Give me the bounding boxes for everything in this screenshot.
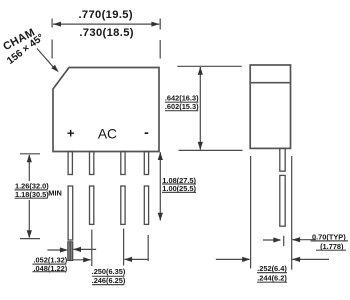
dim 0.70 right arrow bbox=[292, 237, 316, 242]
chamfer label 156x45 bbox=[5, 32, 46, 67]
dim .250/.246 left arrow bbox=[73, 257, 91, 262]
svg-text:1.00(25.5): 1.00(25.5) bbox=[162, 184, 196, 193]
dim text 0.70(TYP) bbox=[311, 232, 349, 241]
pin 1 lower segment bbox=[68, 186, 73, 240]
dim text .246(6.25) bbox=[92, 276, 126, 285]
side view pin lower segment bbox=[280, 175, 285, 226]
pitch extension line pin2 bbox=[91, 230, 93, 267]
dim text .642(16.3) bbox=[165, 94, 199, 103]
dim text 1.08(27.5) bbox=[162, 176, 197, 185]
svg-text:.770(19.5): .770(19.5) bbox=[78, 9, 133, 21]
svg-text:.246(6.25): .246(6.25) bbox=[92, 276, 126, 285]
dim text .252(6.4) bbox=[257, 264, 287, 273]
svg-text:.602(15.3): .602(15.3) bbox=[165, 102, 199, 111]
pitch extension line pin3 bbox=[123, 229, 125, 266]
dim 1.26/1.18 MIN dimension line bbox=[27, 154, 32, 238]
front view body bbox=[53, 68, 159, 152]
dim text 1.00(25.5) bbox=[162, 184, 197, 193]
marking - bbox=[144, 124, 149, 140]
dim text .730(18.5) bbox=[79, 27, 134, 39]
svg-text:.252(6.4): .252(6.4) bbox=[257, 264, 287, 273]
side left extension line bbox=[250, 156, 252, 268]
side view body bbox=[250, 65, 290, 148]
dim text .048(1.22) bbox=[32, 264, 67, 273]
dim text .770(19.5) bbox=[78, 9, 133, 21]
pin 1 upper stub bbox=[68, 152, 72, 175]
side view pin upper stub bbox=[280, 148, 285, 171]
dim .052/.048 left arrow bbox=[47, 247, 68, 252]
dim .250/.246 right arrow bbox=[124, 257, 148, 262]
dim text (1.778) bbox=[316, 242, 346, 251]
dim text .052(1.32) bbox=[32, 256, 67, 265]
side right extension line bbox=[291, 156, 293, 270]
svg-text:-: - bbox=[144, 124, 149, 140]
pin 4 lower segment bbox=[144, 186, 148, 224]
pin 2 upper stub bbox=[90, 152, 94, 175]
dim 0.70 pin face tick bbox=[283, 236, 285, 246]
pitch extension line pin4 bbox=[147, 235, 149, 261]
pin 1 hatched end bbox=[68, 242, 73, 261]
bottom extension line between views bbox=[179, 149, 243, 151]
pin 3 lower segment bbox=[121, 186, 125, 224]
dim 1.08/1.00 dimension line bbox=[158, 152, 163, 221]
dim text .244(6.2) bbox=[257, 273, 287, 282]
chamfer leader arrow bbox=[37, 49, 59, 73]
svg-text:+: + bbox=[67, 126, 75, 141]
side view divider line bbox=[250, 82, 290, 84]
svg-text:.250(6.35): .250(6.35) bbox=[92, 267, 126, 276]
dim text .602(15.3) bbox=[165, 102, 199, 111]
dim text 1.26(32.0) bbox=[15, 181, 50, 190]
dim 1.26/1.18 MIN top bar bbox=[20, 153, 40, 155]
dim .770/.730 right extension line bbox=[159, 19, 161, 59]
dim .642/.602 dimension line bbox=[198, 67, 203, 150]
pin 4 upper stub bbox=[144, 152, 148, 175]
svg-text:.244(6.2): .244(6.2) bbox=[257, 273, 287, 282]
svg-text:MIN: MIN bbox=[48, 188, 62, 197]
svg-text:AC: AC bbox=[98, 127, 117, 142]
top extension line between views bbox=[177, 65, 242, 67]
dim .770/.730 dimension line bbox=[53, 22, 159, 27]
dim 0.70 left arrow bbox=[263, 237, 281, 242]
dim .252/.244 left arrow bbox=[216, 257, 250, 262]
svg-text:0.70(TYP): 0.70(TYP) bbox=[312, 232, 346, 241]
dim text MIN bbox=[48, 188, 62, 197]
dim .052/.048 right arrow bbox=[73, 247, 96, 252]
marking + bbox=[67, 126, 75, 141]
dim text .250(6.35) bbox=[92, 267, 126, 276]
dim .252/.244 right arrow bbox=[292, 257, 329, 262]
marking AC bbox=[98, 127, 117, 142]
svg-text:(1.778): (1.778) bbox=[320, 242, 344, 251]
dim 1.26/1.18 MIN bottom bar bbox=[20, 238, 40, 240]
dim text 1.18(30.5) bbox=[15, 190, 50, 199]
svg-text:.730(18.5): .730(18.5) bbox=[79, 27, 134, 39]
pin 3 upper stub bbox=[121, 152, 125, 175]
dim .770/.730 left extension line bbox=[51, 19, 53, 59]
chamfer label CHAM bbox=[1, 26, 37, 53]
pin 2 lower segment bbox=[90, 186, 94, 224]
